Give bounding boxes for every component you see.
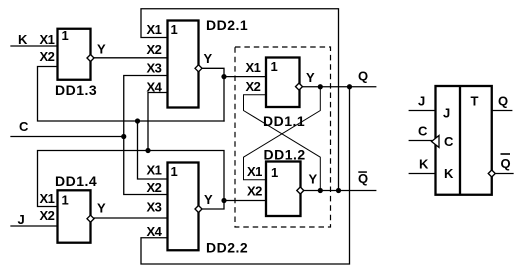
gate DD2.2 bbox=[147, 163, 249, 256]
svg-text:1: 1 bbox=[62, 28, 69, 43]
svg-text:J: J bbox=[18, 212, 25, 227]
svg-text:X3: X3 bbox=[147, 61, 162, 76]
svg-text:X1: X1 bbox=[40, 32, 55, 47]
wire C input to junction bbox=[11, 136, 124, 138]
wire K to DD1.3 X1 bbox=[11, 45, 58, 47]
svg-text:X2: X2 bbox=[246, 79, 261, 94]
svg-text:X1: X1 bbox=[247, 164, 262, 179]
svg-text:Y: Y bbox=[97, 201, 106, 216]
gate DD2.1 bbox=[147, 17, 249, 108]
svg-text:C: C bbox=[418, 124, 428, 139]
svg-text:X1: X1 bbox=[246, 60, 261, 75]
svg-text:X2: X2 bbox=[40, 49, 55, 64]
node junction C line bbox=[121, 134, 126, 139]
node K input label bbox=[18, 32, 28, 47]
svg-text:Q: Q bbox=[498, 94, 508, 109]
wire DD2.2 Y output up to line C bbox=[38, 151, 225, 210]
svg-text:X1: X1 bbox=[147, 22, 162, 37]
svg-text:Y: Y bbox=[309, 172, 318, 187]
svg-text:DD2.2: DD2.2 bbox=[206, 240, 248, 256]
wire J input of U1 bbox=[409, 110, 435, 112]
node junction Q / feedback bbox=[347, 84, 352, 89]
wire Qbar output line bbox=[304, 190, 375, 192]
wire C input of U1 bbox=[409, 140, 431, 142]
svg-text:1: 1 bbox=[171, 22, 178, 37]
node junction Qbar / crossover bbox=[318, 188, 323, 193]
svg-text:K: K bbox=[419, 157, 429, 172]
svg-text:DD1.2: DD1.2 bbox=[264, 147, 306, 163]
svg-text:J: J bbox=[418, 94, 425, 109]
svg-text:X1: X1 bbox=[147, 163, 162, 178]
wire branch to DD2.2 X1 bbox=[138, 121, 168, 179]
svg-text:X2: X2 bbox=[247, 184, 262, 199]
wire DD2.1 Y output to DD1.1 X1 and line A bbox=[202, 68, 224, 121]
junction dots bbox=[121, 74, 352, 203]
svg-text:1: 1 bbox=[62, 193, 69, 208]
svg-text:K: K bbox=[18, 32, 28, 47]
svg-text:DD2.1: DD2.1 bbox=[206, 17, 248, 33]
wire DD1.3 X2 from net Y2 (line A) bbox=[38, 67, 225, 122]
wire bottom feedback Q to DD2.2 X4 bbox=[141, 87, 350, 264]
svg-text:Y: Y bbox=[306, 70, 315, 85]
gate DD1.4 bbox=[40, 173, 107, 243]
node J input label bbox=[18, 212, 25, 227]
node junction line C / DD2.1 X4 branch bbox=[145, 148, 150, 153]
node Qbar label of U1 bbox=[501, 153, 511, 171]
svg-text:DD1.4: DD1.4 bbox=[55, 173, 97, 189]
svg-text:J: J bbox=[443, 106, 450, 121]
svg-text:Q: Q bbox=[501, 156, 511, 171]
wire DD2.1 X4 branch from line C bbox=[148, 93, 168, 151]
svg-text:C: C bbox=[19, 119, 29, 134]
wire J to DD1.4 X2 bbox=[11, 225, 58, 227]
svg-text:Y: Y bbox=[204, 51, 213, 66]
wire DD1.1 X1 branch bbox=[224, 76, 266, 78]
wire DD1.3 Y to DD2.1 X2 bbox=[94, 57, 168, 59]
wire DD1.4 Y to DD2.2 X3 bbox=[94, 217, 168, 219]
svg-text:T: T bbox=[471, 94, 479, 109]
svg-text:X2: X2 bbox=[147, 180, 162, 195]
node C input label bbox=[19, 119, 29, 134]
node junction line A / DD2.2 X1 branch bbox=[135, 118, 140, 123]
wire crossover DD1.2 Y to DD1.1 X2 bbox=[244, 95, 321, 191]
svg-text:C: C bbox=[444, 134, 454, 149]
node junction DD2.1 Y / DD1.1 X1 bbox=[221, 74, 226, 79]
gate DD1.2 bbox=[247, 147, 318, 217]
node junction DD2.2 Y / DD1.2 X2 bbox=[221, 198, 226, 203]
wire Q output line bbox=[303, 86, 376, 88]
svg-text:K: K bbox=[444, 166, 454, 181]
wire DD1.2 X2 branch bbox=[224, 200, 266, 202]
svg-text:X2: X2 bbox=[147, 42, 162, 57]
node junction Q / crossover bbox=[318, 84, 323, 89]
gate DD1.1 bbox=[246, 58, 316, 130]
svg-text:1: 1 bbox=[271, 59, 278, 74]
svg-text:X1: X1 bbox=[40, 191, 55, 206]
wire K input of U1 bbox=[409, 173, 435, 175]
svg-text:X4: X4 bbox=[147, 80, 163, 95]
gate DD1.3 bbox=[40, 28, 107, 98]
node dynamic input triangle of U1 bbox=[432, 136, 440, 148]
wire top feedback Qbar to DD2.1 X1 bbox=[141, 9, 339, 191]
flip-flop U1 (T symbol) bbox=[436, 86, 492, 195]
svg-text:X2: X2 bbox=[40, 208, 55, 223]
svg-text:Q: Q bbox=[358, 171, 368, 186]
svg-text:DD1.1: DD1.1 bbox=[263, 113, 305, 129]
wire C net vertical to DD2.1 X3 and DD2.2 X2 bbox=[124, 76, 168, 195]
svg-text:Y: Y bbox=[204, 192, 213, 207]
svg-text:Y: Y bbox=[97, 42, 106, 57]
node Qbar bubble of U1 bbox=[488, 170, 495, 177]
wire Q output of U1 bbox=[492, 110, 512, 112]
svg-text:Q: Q bbox=[358, 69, 368, 84]
svg-text:1: 1 bbox=[271, 165, 278, 180]
svg-text:X3: X3 bbox=[147, 200, 162, 215]
node Qbar output label bbox=[358, 171, 368, 186]
svg-text:X4: X4 bbox=[147, 224, 163, 239]
svg-text:DD1.3: DD1.3 bbox=[55, 82, 97, 98]
wire divider bbox=[459, 86, 461, 195]
svg-text:1: 1 bbox=[171, 164, 178, 179]
node junction Qbar / feedback bbox=[336, 188, 341, 193]
wire crossover DD1.1 Y to DD1.2 X1 bbox=[244, 87, 321, 180]
wire Qbar output of U1 bbox=[495, 173, 513, 175]
dashed box DD1.1/DD1.2 bbox=[235, 47, 331, 227]
